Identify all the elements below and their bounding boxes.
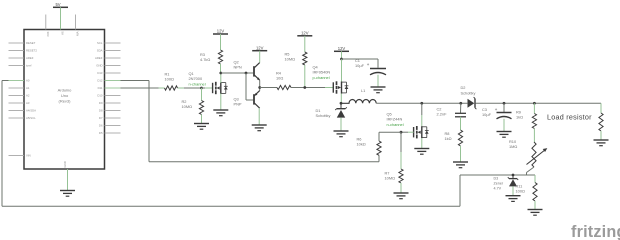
transistor Q4 IRF9540N <box>333 81 348 93</box>
svg-text:RESET: RESET <box>26 41 36 45</box>
label R5 10M <box>285 52 296 62</box>
resistor R11 <box>533 183 537 202</box>
wire 12V to Q4 source <box>341 59 343 82</box>
Arduino bottom pin label <box>63 161 67 167</box>
svg-text:12V: 12V <box>256 45 264 50</box>
svg-text:VIN: VIN <box>26 154 31 158</box>
svg-text:D13: D13 <box>97 71 103 75</box>
transistor Q5 IRFZ44N <box>414 126 429 138</box>
node switch dot <box>340 102 343 105</box>
wire emitters junction <box>259 80 261 90</box>
diode D3 Zener 4.7V <box>508 177 518 186</box>
svg-text:10MΩ: 10MΩ <box>182 104 193 109</box>
label R8 1k <box>445 131 452 141</box>
Arduino left pin legs <box>9 43 25 156</box>
Arduino Uno U1 body <box>24 30 105 170</box>
wire feedback to divider node <box>460 174 535 176</box>
resistor R6 <box>377 141 381 155</box>
svg-text:12V: 12V <box>338 46 346 51</box>
svg-text:(Rev3): (Rev3) <box>58 99 71 104</box>
svg-text:L1: L1 <box>361 88 365 93</box>
transistor Q1 2N7000 <box>213 82 228 94</box>
resistor R1 leads <box>159 87 185 89</box>
capacitor C1 10uF <box>367 62 386 75</box>
svg-text:1MΩ: 1MΩ <box>509 144 517 149</box>
svg-text:GND: GND <box>63 161 67 167</box>
svg-text:GND: GND <box>96 64 102 68</box>
resistor R2 top lead <box>201 88 203 101</box>
svg-text:NPN: NPN <box>234 65 242 70</box>
svg-text:A1: A1 <box>26 86 30 90</box>
label D1 Schottky <box>316 108 331 118</box>
svg-text:fritzing: fritzing <box>571 223 620 240</box>
resistor R7 <box>399 169 403 183</box>
node R3 drain dot <box>219 72 222 75</box>
svg-text:n-channel: n-channel <box>189 81 206 86</box>
svg-text:n-channel: n-channel <box>387 122 404 127</box>
svg-text:VIN: VIN <box>76 32 80 37</box>
label C2 2.2nF <box>437 107 448 117</box>
diode D1 lead <box>340 103 342 108</box>
svg-text:1kΩ: 1kΩ <box>445 136 452 141</box>
label R9 1k <box>516 110 523 120</box>
svg-text:Zener: Zener <box>494 181 504 185</box>
ground R7 <box>394 183 409 199</box>
label C1 10uF <box>355 58 365 68</box>
svg-text:10MΩ: 10MΩ <box>385 176 396 181</box>
svg-text:Schottky: Schottky <box>461 90 476 95</box>
ground D3 <box>506 186 521 201</box>
label R11 100 <box>516 184 525 194</box>
svg-text:A0: A0 <box>26 79 30 83</box>
wire Q4 drain to switch node <box>340 94 342 104</box>
svg-text:SCL: SCL <box>97 41 103 45</box>
label D2 Schottky <box>461 85 476 95</box>
diode D3 lead <box>512 175 514 178</box>
label R3 4.7k <box>200 52 210 62</box>
node Q5 gate dot <box>400 131 403 134</box>
svg-text:PNP: PNP <box>234 102 242 107</box>
resistor R2 <box>199 101 203 115</box>
wire emitters to R4 <box>260 87 277 89</box>
wire D10 bottom run to R6 <box>149 155 379 162</box>
ground Arduino GND <box>60 191 75 197</box>
fritzing logo <box>571 223 620 240</box>
node R5 gate dot <box>303 86 306 89</box>
svg-text:AREF: AREF <box>26 56 34 60</box>
svg-text:A5/SCL: A5/SCL <box>26 116 36 120</box>
wire feedback riser <box>459 175 461 206</box>
svg-text:D7: D7 <box>99 116 103 120</box>
power 5V <box>53 2 68 30</box>
svg-text:Schottky: Schottky <box>316 113 331 118</box>
svg-text:RESET2: RESET2 <box>26 49 37 53</box>
capacitor C2 lead <box>460 103 462 113</box>
wire rail L1 to D2 <box>376 102 467 104</box>
svg-text:+: + <box>495 107 498 112</box>
ground Q1 source <box>213 93 228 115</box>
label Q3 PNP <box>234 97 242 107</box>
label Q4 IRF9540N p-channel <box>313 65 331 80</box>
resistor R5 bottom lead <box>304 65 306 88</box>
wire A0 feedback left segment <box>2 81 9 207</box>
label D3 Zener 4.7V <box>494 177 504 191</box>
wire gate lead Q1 <box>202 87 213 89</box>
svg-text:+: + <box>367 62 370 67</box>
label Load resistor <box>547 112 592 121</box>
node 12V C1 dot <box>340 58 343 61</box>
label R2 10M <box>182 99 193 109</box>
svg-text:3V3: 3V3 <box>46 32 50 37</box>
svg-text:D3: D3 <box>494 177 499 181</box>
wire Q1 drain up <box>220 73 222 83</box>
svg-text:D11: D11 <box>98 86 103 90</box>
svg-text:10MΩ: 10MΩ <box>285 57 296 62</box>
resistor R3 <box>218 50 222 64</box>
label C3 10uF <box>482 107 492 117</box>
capacitor C3 10uF <box>495 107 512 119</box>
label Q2 NPN <box>234 60 242 70</box>
svg-text:A3: A3 <box>26 101 30 105</box>
svg-text:D10: D10 <box>97 94 103 98</box>
svg-text:2.2nF: 2.2nF <box>437 112 448 117</box>
resistor R8 <box>458 130 462 146</box>
svg-text:Arduino: Arduino <box>58 87 73 92</box>
node Q1 gate dot <box>200 87 203 90</box>
svg-text:Load resistor: Load resistor <box>547 112 592 121</box>
wire 12V rail to C1 <box>342 59 379 68</box>
svg-text:Uno: Uno <box>61 93 69 98</box>
capacitor C3 lead <box>503 103 505 112</box>
svg-text:A4/SDA: A4/SDA <box>26 109 36 113</box>
wire feedback bottom run <box>2 205 460 207</box>
power 12V Q2 <box>252 45 267 62</box>
svg-text:4.7V: 4.7V <box>494 186 502 190</box>
diode D2 Schottky <box>468 97 477 109</box>
label R7 10M <box>385 171 396 181</box>
svg-text:D6: D6 <box>99 124 103 128</box>
svg-text:100Ω: 100Ω <box>516 189 525 194</box>
power 12V R5 <box>297 30 312 52</box>
svg-text:10Ω: 10Ω <box>276 76 283 81</box>
wire D10 horizontal <box>121 80 150 82</box>
resistor R9 <box>532 114 536 129</box>
svg-text:AREF: AREF <box>95 56 103 60</box>
node bases dot <box>245 72 248 75</box>
ground D1 <box>334 118 349 137</box>
svg-text:D8: D8 <box>99 109 103 113</box>
label Q1 2N7000 n-channel <box>189 71 206 86</box>
wire R1 to Q1 gate <box>184 87 202 89</box>
wire Q5 drain up <box>421 103 423 126</box>
node C3 dot <box>503 102 506 105</box>
wire R10 bottom lead <box>527 167 535 175</box>
wire Q3 base <box>246 99 253 101</box>
svg-text:100Ω: 100Ω <box>165 77 174 82</box>
ground C1 <box>371 75 386 93</box>
wire bases horizontal <box>221 72 253 74</box>
svg-text:10µF: 10µF <box>482 112 492 117</box>
resistor RL load <box>599 113 603 131</box>
label R10 1M <box>509 139 517 149</box>
svg-text:5V: 5V <box>55 2 60 7</box>
wire Q5 gate <box>401 131 414 133</box>
svg-text:10µF: 10µF <box>355 63 365 68</box>
ground RL <box>594 131 609 146</box>
svg-text:4.7kΩ: 4.7kΩ <box>200 57 210 62</box>
svg-text:D12: D12 <box>97 79 103 83</box>
label R6 10k <box>357 137 366 147</box>
resistor R9 top lead <box>533 103 535 113</box>
wire rail D2 to load <box>476 102 601 104</box>
wire R4 to Q4 gate <box>291 87 333 89</box>
node R9 dot <box>533 102 536 105</box>
diode D1 Schottky <box>335 107 347 117</box>
resistor R4 <box>277 85 291 89</box>
node emitters dot <box>258 86 261 89</box>
node C2 dot <box>459 102 462 105</box>
wire bases vertical <box>245 73 247 100</box>
svg-text:D5: D5 <box>99 131 103 135</box>
transistor Q2 NPN <box>254 63 260 81</box>
ground R11 <box>528 201 543 215</box>
power 12V R3 <box>213 29 228 50</box>
transistor Q3 PNP <box>254 91 260 109</box>
resistor R10 potentiometer <box>532 142 536 167</box>
wire R9 to R10 <box>533 129 535 143</box>
svg-text:A2: A2 <box>26 94 30 98</box>
Arduino right pin legs <box>105 43 121 133</box>
wire gate to R7 <box>400 132 402 169</box>
Arduino Uno U1 title <box>58 87 73 103</box>
svg-text:1kΩ: 1kΩ <box>516 115 523 120</box>
node Q5 drain dot <box>420 102 423 105</box>
Arduino right pin labels <box>95 41 103 135</box>
node divider dot <box>512 174 515 177</box>
wire gate to R6 <box>379 132 401 141</box>
resistor R8 top lead <box>460 117 462 130</box>
resistor R5 <box>303 52 307 65</box>
Arduino GND pin wire <box>67 169 69 191</box>
label R4 10 <box>276 71 283 81</box>
wire D9 to R1 <box>121 87 159 89</box>
Arduino top pin labels <box>46 32 80 37</box>
resistor R1 <box>165 86 178 90</box>
svg-text:5V: 5V <box>61 32 65 36</box>
resistor R11 top lead <box>534 175 536 183</box>
svg-text:12V: 12V <box>301 30 309 35</box>
capacitor C2 2.2nF <box>455 113 466 117</box>
ground Q5 source <box>414 138 429 154</box>
ground R8 <box>453 146 468 168</box>
svg-text:12V: 12V <box>217 29 225 34</box>
label R1 100 <box>165 72 174 82</box>
label L1 <box>361 88 365 93</box>
svg-text:SDA: SDA <box>97 49 103 53</box>
svg-text:10kΩ: 10kΩ <box>357 142 366 147</box>
svg-text:p-channel: p-channel <box>313 75 330 80</box>
resistor R3 bottom lead <box>220 64 222 73</box>
potentiometer R10 arrow <box>527 148 548 164</box>
ground R2 <box>194 115 209 130</box>
Arduino left pin labels <box>26 41 37 158</box>
ground Q3 collector <box>252 108 267 131</box>
wire load drop <box>600 103 602 113</box>
Arduino top pin legs <box>46 15 76 30</box>
svg-text:D9: D9 <box>99 101 103 105</box>
inductor L1 <box>341 100 376 104</box>
svg-text:ioref: ioref <box>26 64 32 68</box>
power 12V Q4 <box>334 46 349 59</box>
wire D10 riser <box>148 81 150 162</box>
label Q5 IRFZ44N n-channel <box>387 112 404 127</box>
ground C3 <box>497 119 512 137</box>
